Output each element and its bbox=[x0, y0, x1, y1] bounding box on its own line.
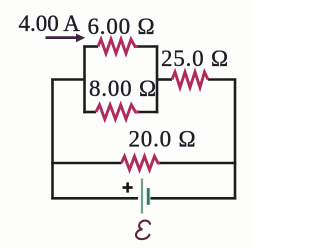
label: 20.0 ohm bbox=[129, 127, 197, 152]
label: 8.00 ohm bbox=[89, 76, 157, 101]
svg-text:8.00 Ω: 8.00 Ω bbox=[89, 76, 157, 101]
resistor 25.0 ohm zigzag bbox=[172, 72, 208, 88]
wire: left vertical branch bbox=[51, 79, 54, 200]
arrow: current direction bbox=[46, 34, 86, 43]
label: EMF script E bbox=[136, 221, 150, 240]
wire: middle branch (20 ohm) right segment bbox=[160, 162, 236, 165]
battery long plate (positive) bbox=[140, 179, 143, 214]
svg-text:25.0 Ω: 25.0 Ω bbox=[161, 46, 229, 71]
battery short plate (negative) bbox=[146, 188, 150, 205]
svg-text:20.0 Ω: 20.0 Ω bbox=[129, 127, 197, 152]
label: 6.00 ohm bbox=[88, 14, 156, 39]
resistor 20.0 ohm zigzag bbox=[122, 156, 161, 170]
wire: left connector to parallel box bbox=[51, 78, 84, 81]
wire: middle branch (20 ohm) left segment bbox=[51, 162, 121, 165]
wire: 25 ohm branch stub from box bbox=[156, 78, 172, 81]
wire: 25 ohm branch stub to right wire bbox=[208, 78, 236, 81]
battery plus sign bbox=[123, 182, 133, 192]
svg-text:6.00 Ω: 6.00 Ω bbox=[88, 14, 156, 39]
wire: bottom branch right of battery bbox=[151, 197, 237, 200]
node: parallel combination box bbox=[83, 45, 158, 113]
label: 4.00 A current bbox=[19, 11, 81, 36]
svg-text:4.00 A: 4.00 A bbox=[19, 11, 81, 36]
resistor 8.00 ohm zigzag bbox=[96, 105, 139, 119]
wire: right vertical branch bbox=[234, 79, 237, 200]
resistor 6.00 ohm zigzag bbox=[98, 39, 138, 53]
label: 25.0 ohm bbox=[161, 46, 229, 71]
wire: bottom branch left of battery bbox=[51, 197, 138, 200]
